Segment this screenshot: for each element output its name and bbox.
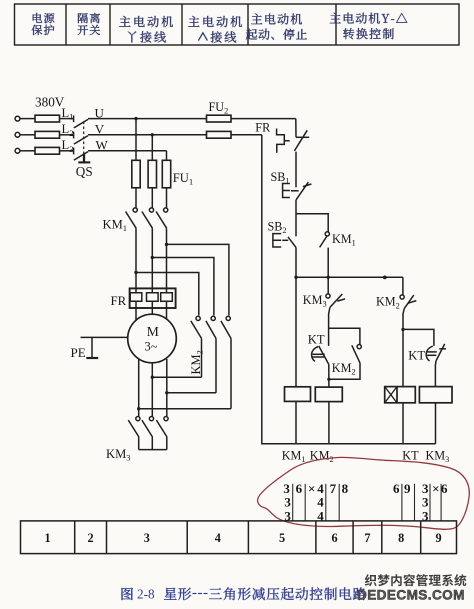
wire SB2 to junction rail bbox=[295, 247, 297, 277]
switch QS pole 1 fixed contact bbox=[73, 115, 75, 122]
wire branch to KM1 aux bbox=[296, 214, 328, 232]
wire branch to KM2 aux bbox=[329, 328, 360, 344]
contactor KM2 main contact 2 bbox=[206, 316, 216, 338]
svg-text:8: 8 bbox=[398, 531, 404, 545]
wire fuse to switch QS pole 1 bbox=[60, 118, 74, 120]
wire FR to motor bbox=[135, 308, 137, 321]
wire fuse FU1 to contactor KM1 pole 1 bbox=[135, 188, 137, 208]
contactor KM3 NC interlock contact bbox=[326, 294, 345, 308]
ground PE symbol bbox=[86, 337, 98, 358]
contactor KM3 main contact 1 bbox=[128, 417, 140, 438]
svg-text:3: 3 bbox=[422, 494, 429, 509]
svg-text:8: 8 bbox=[342, 481, 349, 496]
switch QS pole 2 fixed contact bbox=[73, 132, 75, 139]
wire motor V2 tail bbox=[151, 363, 153, 416]
wire KM1 aux bottom bbox=[327, 248, 329, 278]
node L1 supply terminal bbox=[15, 116, 20, 121]
wire fuse FU1 to contactor KM1 pole 2 bbox=[151, 188, 153, 208]
wire KM1 pole 1 to FR bbox=[135, 228, 137, 288]
timer KT NC delayed-open contact bbox=[426, 344, 446, 361]
red annotation loop bbox=[258, 457, 470, 529]
caption 图2-8 bbox=[122, 588, 133, 600]
wire V bus bbox=[88, 134, 207, 136]
contactor KM2 main contact 1 bbox=[191, 316, 202, 338]
wire W bus bbox=[88, 150, 167, 152]
svg-text:KT: KT bbox=[408, 348, 425, 362]
contact usage numbers row 3 bbox=[284, 509, 429, 524]
contactor KM2 NC interlock contact bbox=[400, 295, 416, 309]
contactor KM1 main contact 2 bbox=[142, 208, 154, 228]
wire fuse FU1 to contactor KM1 pole 3 bbox=[166, 188, 168, 208]
svg-text:7: 7 bbox=[330, 481, 337, 496]
svg-text:3~: 3~ bbox=[145, 340, 158, 354]
wire rail to KM1 coil bbox=[295, 277, 297, 387]
wire star point bar bbox=[139, 449, 167, 451]
svg-text:×: × bbox=[308, 481, 315, 496]
wire delta link 3 bbox=[139, 408, 231, 410]
contactor KM1 main contact 1 bbox=[126, 208, 138, 228]
wire KM2 aux bottom loop bbox=[329, 363, 360, 379]
fuse FU2 lower (control V) bbox=[207, 131, 232, 138]
wire delta link 2 bbox=[167, 392, 216, 394]
contact usage numbers row 1 bbox=[283, 481, 448, 496]
svg-text:3: 3 bbox=[284, 494, 291, 509]
wire phase 3 drop to fuse FU1 bbox=[166, 151, 168, 161]
FR heater element bbox=[130, 288, 142, 308]
switch QS pole 2 blade bbox=[74, 136, 88, 145]
FR heater element bbox=[161, 288, 173, 308]
svg-text:M: M bbox=[147, 324, 159, 339]
svg-text:6: 6 bbox=[441, 481, 448, 496]
wire L3 terminal to fuse bbox=[20, 150, 35, 152]
header cell: 主电动机Y-△转换控制 bbox=[330, 13, 408, 24]
junction motor tail 1 bbox=[151, 376, 154, 379]
svg-text:FR: FR bbox=[255, 121, 271, 135]
header cell: 主电动机△接线 bbox=[188, 16, 242, 27]
node L3 supply terminal bbox=[15, 148, 20, 153]
header cell: 主电动机Y接线 bbox=[119, 16, 173, 27]
svg-text:4: 4 bbox=[317, 494, 324, 509]
zone table bbox=[21, 521, 457, 554]
wire branch to KT NC delayed contact bbox=[403, 329, 434, 346]
wire KM3 contact 2 to star point bbox=[151, 437, 153, 450]
contactor KM3 main contact 3 bbox=[156, 417, 168, 438]
coil KT (time relay) bbox=[385, 387, 416, 403]
wire U bus bbox=[88, 118, 207, 120]
junction motor tail 3 bbox=[137, 407, 140, 410]
svg-text:2-8: 2-8 bbox=[137, 587, 155, 602]
switch QS linkage (dashed) bbox=[83, 122, 85, 154]
fuse FU1 element 1 bbox=[132, 160, 140, 188]
svg-text:5: 5 bbox=[279, 531, 285, 545]
fuse L3 (power protection) bbox=[35, 147, 60, 154]
svg-text:×: × bbox=[432, 481, 439, 496]
wire left rail (V phase) bbox=[262, 135, 436, 444]
svg-text:KT: KT bbox=[308, 332, 325, 346]
caption title bbox=[164, 588, 191, 600]
wire phase tap to KM2 contact top bbox=[152, 258, 214, 316]
junction U bus to FU1 bbox=[134, 117, 137, 120]
wire fuse to switch QS pole 3 bbox=[60, 150, 74, 152]
svg-text:380V: 380V bbox=[35, 95, 65, 110]
junction phase tap to KM2 contact 3 bbox=[165, 243, 168, 246]
svg-text:KT: KT bbox=[402, 448, 419, 462]
ground PE wire bbox=[81, 336, 128, 338]
wire KM3 contact 3 to star point bbox=[166, 437, 168, 450]
pushbutton SB1 (stop, NC) bbox=[283, 182, 312, 200]
svg-text:2: 2 bbox=[88, 531, 94, 545]
svg-text:6: 6 bbox=[393, 481, 400, 496]
switch QS pole 3 fixed contact bbox=[73, 148, 75, 155]
wire KT NC to KM3 coil bbox=[434, 361, 437, 387]
wire junction to KT coil bbox=[402, 329, 404, 386]
svg-text:9: 9 bbox=[436, 531, 442, 545]
wire U bus corner into control bbox=[295, 119, 297, 138]
wire KM1 pole 2 to FR bbox=[151, 228, 153, 288]
junction V bus to FU1 bbox=[151, 133, 154, 136]
timer KT NO delayed-close contact bbox=[312, 346, 329, 365]
coil KM2 bbox=[315, 387, 342, 402]
wire fuse to switch QS pole 2 bbox=[60, 134, 74, 136]
fuse L2 (power protection) bbox=[35, 131, 60, 138]
header cell: 主电动机起动、停止 bbox=[251, 14, 302, 25]
wire junction rail bbox=[296, 276, 403, 278]
fuse FU1 element 2 bbox=[148, 160, 156, 188]
zone numbers 1-9 bbox=[45, 531, 442, 545]
svg-text:PE: PE bbox=[71, 345, 86, 360]
svg-text:1: 1 bbox=[45, 531, 51, 545]
svg-text:9: 9 bbox=[404, 481, 411, 496]
svg-text:6: 6 bbox=[296, 481, 303, 496]
contactor KM1 auxiliary contact (seal-in) bbox=[320, 232, 330, 248]
header cell: 隔离开关 bbox=[78, 13, 100, 23]
wire rail corner to KM2 NC interlock bbox=[402, 277, 404, 295]
wire KM2 NC to junction bbox=[403, 308, 404, 329]
contactor KM2 aux contact (parallel with KT) bbox=[352, 345, 362, 363]
relay FR NC contact (control) bbox=[277, 129, 310, 153]
wire phase 1 drop to fuse FU1 bbox=[135, 119, 137, 161]
wire motor W2 tail bbox=[166, 359, 168, 416]
wire L2 terminal to fuse bbox=[20, 134, 35, 136]
wire FR to SB1 bbox=[295, 152, 297, 188]
wire motor U2 tail bbox=[138, 360, 140, 417]
junction phase tap to KM2 contact 2 bbox=[151, 256, 154, 259]
switch QS pole 3 blade bbox=[74, 152, 88, 161]
header cell: 电源保护 bbox=[33, 13, 54, 23]
wire phase tap to KM2 contact top bbox=[167, 244, 229, 315]
wire KM2 contact 1 bottom bbox=[201, 338, 203, 377]
coil KM1 bbox=[285, 387, 311, 402]
wire KM3 contact 1 to star point bbox=[138, 437, 140, 450]
thermal relay FR heater box bbox=[130, 288, 176, 308]
fuse FU1 element 3 bbox=[162, 160, 170, 188]
svg-text:QS: QS bbox=[76, 164, 93, 179]
contactor KM2 main contact 3 bbox=[221, 316, 231, 338]
contactor KM3 main contact 2 bbox=[142, 417, 154, 438]
wire rail to KM3 NC interlock bbox=[327, 277, 329, 294]
contact usage numbers row 2 bbox=[284, 494, 429, 509]
wire SB1 to SB2 branch bbox=[295, 200, 297, 236]
wire L1 terminal to fuse bbox=[20, 118, 35, 120]
wire phase tap to KM2 contact top bbox=[136, 273, 199, 316]
wire delta link 1 bbox=[152, 376, 201, 378]
wire coils to bottom rail bbox=[295, 401, 297, 443]
svg-text:DEDECMS.COM: DEDECMS.COM bbox=[357, 588, 465, 603]
junction dots on rail bbox=[294, 276, 297, 279]
wire KT contact to KM2 coil bbox=[328, 364, 330, 387]
FR heater element bbox=[147, 288, 159, 308]
junction phase tap to KM2 contact 1 bbox=[134, 271, 137, 274]
svg-text:3: 3 bbox=[144, 531, 150, 545]
junction motor tail 2 bbox=[165, 391, 168, 394]
watermark line 1 bbox=[365, 574, 467, 586]
coil KM3 bbox=[419, 387, 452, 403]
svg-text:4: 4 bbox=[215, 531, 221, 545]
wire KM2 contact 3 bottom bbox=[230, 338, 232, 408]
wire phase 2 drop to fuse FU1 bbox=[151, 135, 153, 161]
wire KM3 NC to KT branch bbox=[329, 307, 330, 346]
fuse FU2 upper (control U) bbox=[207, 115, 232, 122]
wire KM1 pole 3 to FR bbox=[166, 228, 168, 288]
motor M 3~ bbox=[128, 314, 177, 363]
pushbutton SB2 (start, NO) bbox=[273, 234, 296, 248]
switch QS pole 1 blade bbox=[74, 119, 88, 128]
contactor KM1 main contact 3 bbox=[156, 208, 168, 228]
svg-text:FR: FR bbox=[111, 294, 127, 308]
switch QS handle bbox=[78, 153, 90, 162]
svg-text:7: 7 bbox=[364, 531, 370, 545]
contact usage tick lines bbox=[293, 484, 441, 521]
wire KM2 contact 2 bottom bbox=[215, 338, 217, 392]
header table frame bbox=[15, 4, 460, 45]
fuse L1 (power protection) bbox=[35, 115, 60, 122]
node L2 supply terminal bbox=[15, 132, 20, 137]
svg-text:6: 6 bbox=[331, 531, 337, 545]
